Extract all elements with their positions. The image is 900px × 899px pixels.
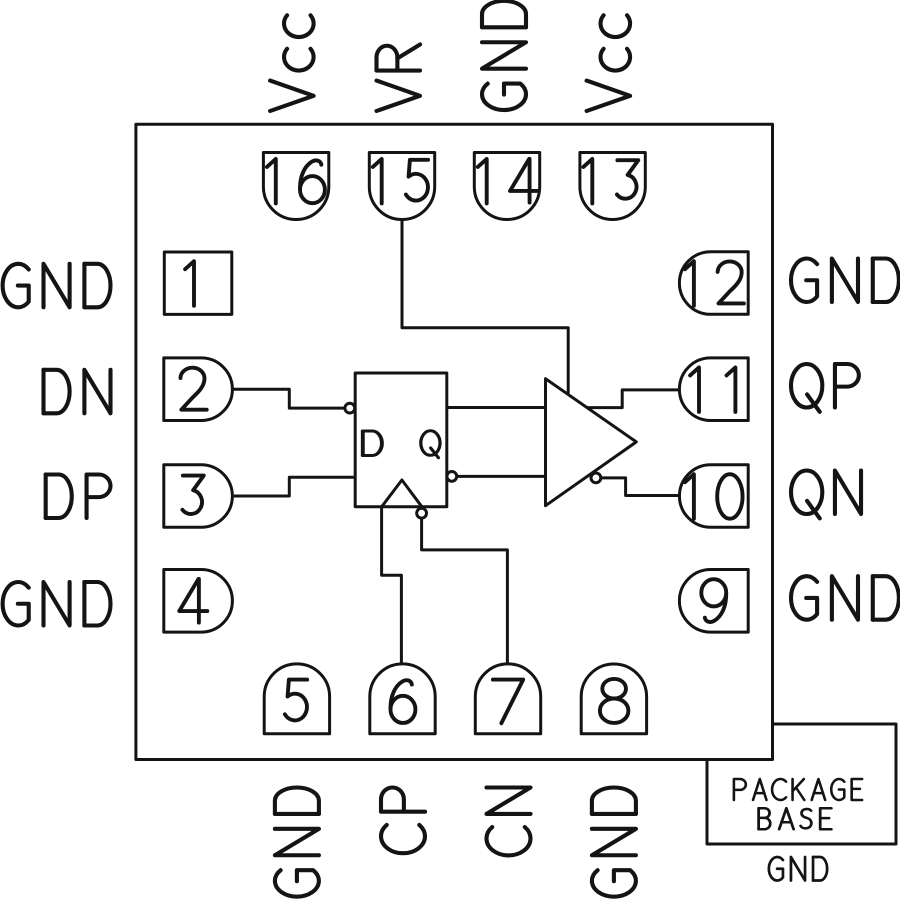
pin 9 number	[701, 579, 726, 622]
pin 9 pad	[679, 570, 748, 633]
package base pad	[707, 724, 896, 844]
label Vcc pin16	[270, 15, 314, 111]
flip-flop D label	[363, 431, 382, 456]
pin 3 pad	[164, 465, 233, 528]
PACKAGE BASE label	[734, 779, 862, 800]
pin 10 pad	[679, 465, 748, 528]
wire DN pin2 to flipflop	[231, 389, 345, 408]
label CP pin6	[381, 788, 425, 854]
label GND pin14	[482, 1, 526, 110]
wire QP buffer to pin11	[587, 390, 680, 408]
pin 7 number	[493, 680, 523, 724]
pin 3 number	[182, 476, 203, 514]
pin 14 pad	[474, 153, 539, 220]
pin 16 number	[267, 159, 276, 204]
wire CN pin7 to flipflop clock-bar	[422, 518, 508, 664]
label GND pin9	[791, 576, 899, 620]
label GND pin4	[3, 582, 111, 626]
pin 16 pad	[263, 153, 328, 220]
pin 5 pad	[264, 664, 329, 734]
label Vcc pin13	[587, 15, 631, 111]
pin 7 pad	[475, 664, 540, 734]
pin 15 number	[373, 159, 382, 204]
IC package outline	[136, 124, 773, 759]
pin 6 pad	[370, 664, 435, 734]
pin 11 number	[690, 367, 699, 412]
output buffer U2	[546, 379, 637, 506]
pin 2 pad	[164, 358, 233, 421]
flip-flop clock wedge	[382, 480, 422, 507]
pin 11 pad	[679, 358, 748, 421]
label QN pin10	[791, 471, 861, 519]
pin 2 number	[180, 368, 206, 410]
wire DP pin3 to flipflop	[231, 477, 355, 496]
pin 4 number	[179, 579, 207, 623]
label CN pin7	[487, 788, 531, 856]
wire Q flipflop to buffer	[447, 406, 546, 409]
wire QB flipflop to buffer	[457, 475, 546, 478]
pin 1 number	[185, 261, 194, 306]
label GND pin1	[3, 264, 111, 308]
flip-flop U1 body	[355, 373, 447, 507]
label DN pin2	[44, 370, 111, 414]
label DP pin3	[46, 475, 111, 519]
bubble DN input	[345, 403, 355, 413]
pin 15 pad	[369, 153, 434, 220]
pin 14 number	[478, 159, 487, 204]
pin 5 number	[285, 680, 307, 721]
label VR pin15	[377, 44, 421, 111]
pin 1 pad	[164, 252, 232, 314]
bubble CN input	[417, 508, 427, 518]
bubble QB output	[447, 472, 457, 482]
pin 4 pad	[164, 570, 233, 633]
pin 8 pad	[581, 664, 646, 734]
pin 8 number	[600, 679, 628, 723]
wire CP pin6 to flipflop clock	[382, 507, 402, 664]
pin 6 number	[390, 680, 415, 723]
pin 12 number	[685, 261, 694, 306]
pin 12 pad	[679, 252, 748, 315]
pin 13 number	[583, 159, 592, 204]
wire VR pin15 to buffer	[402, 220, 568, 393]
wire QN buffer to pin10	[601, 478, 680, 496]
label GND pin5	[275, 788, 319, 897]
bubble QN buffer output	[591, 473, 601, 483]
label GND pin12	[791, 259, 899, 303]
package base GND label	[769, 857, 827, 881]
flip-flop Q label	[421, 431, 440, 458]
label QP pin11	[791, 364, 859, 412]
pin 13 pad	[580, 153, 645, 220]
pin 10 number	[685, 474, 694, 519]
label GND pin8	[592, 788, 636, 897]
